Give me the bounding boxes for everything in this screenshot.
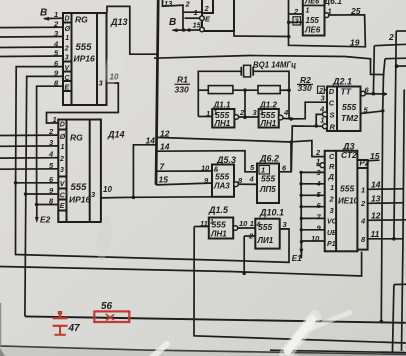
svg-text:15: 15 bbox=[193, 21, 202, 30]
svg-text:1: 1 bbox=[65, 35, 69, 42]
svg-text:ЛН1: ЛН1 bbox=[260, 119, 277, 128]
svg-text:2: 2 bbox=[248, 232, 254, 241]
svg-text:56: 56 bbox=[101, 301, 113, 312]
svg-text:47: 47 bbox=[68, 323, 81, 334]
svg-text:ЛЕ6: ЛЕ6 bbox=[304, 0, 320, 6]
svg-text:1: 1 bbox=[210, 219, 214, 226]
svg-text:R: R bbox=[330, 123, 336, 132]
svg-text:10: 10 bbox=[201, 164, 210, 173]
svg-text:2: 2 bbox=[59, 156, 64, 163]
svg-text:C: C bbox=[329, 99, 335, 108]
svg-text:330: 330 bbox=[175, 85, 189, 95]
svg-text:3: 3 bbox=[60, 167, 64, 174]
svg-text:11: 11 bbox=[200, 219, 208, 228]
svg-text:Р1: Р1 bbox=[327, 241, 336, 248]
svg-text:Е1: Е1 bbox=[292, 254, 302, 263]
svg-text:Д: Д bbox=[328, 172, 335, 181]
svg-text:&: & bbox=[257, 221, 262, 228]
svg-text:1: 1 bbox=[250, 219, 254, 228]
svg-text:RG: RG bbox=[70, 133, 83, 143]
svg-text:E: E bbox=[60, 203, 65, 210]
svg-text:ИР16: ИР16 bbox=[69, 195, 91, 205]
svg-text:1: 1 bbox=[260, 110, 264, 117]
svg-text:1: 1 bbox=[53, 115, 57, 124]
svg-text:4: 4 bbox=[53, 39, 59, 48]
svg-text:2: 2 bbox=[293, 7, 299, 16]
svg-text:555: 555 bbox=[71, 182, 88, 193]
svg-text:1: 1 bbox=[194, 8, 198, 17]
svg-text:ЛЕ6: ЛЕ6 bbox=[304, 26, 321, 35]
svg-text:ТМ2: ТМ2 bbox=[341, 113, 358, 123]
svg-text:555: 555 bbox=[261, 174, 275, 184]
svg-text:Д10.1: Д10.1 bbox=[259, 208, 284, 218]
svg-text:СТ2: СТ2 bbox=[341, 150, 357, 160]
svg-text:4: 4 bbox=[316, 179, 322, 188]
svg-text:555: 555 bbox=[215, 172, 229, 182]
svg-text:1: 1 bbox=[206, 109, 210, 118]
svg-text:10: 10 bbox=[311, 234, 320, 243]
svg-text:Е2: Е2 bbox=[40, 215, 51, 225]
svg-text:2: 2 bbox=[204, 4, 210, 13]
svg-text:19: 19 bbox=[350, 38, 360, 48]
svg-text:1: 1 bbox=[306, 8, 310, 15]
svg-text:15: 15 bbox=[370, 151, 380, 161]
svg-text:R: R bbox=[329, 162, 335, 171]
svg-text:В: В bbox=[40, 8, 47, 19]
svg-text:4: 4 bbox=[360, 217, 366, 226]
svg-text:D: D bbox=[65, 16, 70, 23]
svg-text:4: 4 bbox=[249, 175, 255, 184]
svg-text:2: 2 bbox=[48, 127, 54, 136]
svg-text:ЛИ1: ЛИ1 bbox=[257, 236, 274, 245]
svg-text:1: 1 bbox=[320, 116, 324, 125]
svg-text:2: 2 bbox=[53, 20, 59, 29]
svg-text:Д5.3: Д5.3 bbox=[216, 155, 236, 165]
svg-text:12: 12 bbox=[160, 129, 170, 139]
svg-text:13: 13 bbox=[164, 0, 173, 8]
svg-text:25: 25 bbox=[350, 6, 361, 16]
svg-text:D: D bbox=[329, 87, 335, 96]
svg-text:4: 4 bbox=[319, 104, 325, 113]
svg-text:15: 15 bbox=[159, 175, 169, 185]
svg-text:Д6.2: Д6.2 bbox=[259, 154, 279, 164]
svg-text:Д1.1: Д1.1 bbox=[213, 101, 231, 110]
svg-text:13: 13 bbox=[371, 194, 381, 204]
svg-text:14: 14 bbox=[160, 142, 170, 152]
svg-text:1: 1 bbox=[214, 110, 218, 117]
svg-text:UВ: UВ bbox=[327, 230, 337, 237]
svg-text:ТТ: ТТ bbox=[341, 87, 352, 97]
svg-text:4: 4 bbox=[48, 150, 54, 159]
svg-text:R1: R1 bbox=[177, 75, 188, 85]
svg-text:C: C bbox=[329, 152, 335, 161]
svg-text:12: 12 bbox=[371, 211, 381, 221]
svg-text:1: 1 bbox=[54, 10, 58, 19]
svg-text:VC: VC bbox=[327, 219, 338, 226]
svg-text:10: 10 bbox=[103, 185, 112, 194]
svg-text:ЛН1: ЛН1 bbox=[210, 230, 227, 239]
svg-text:2: 2 bbox=[64, 46, 69, 53]
svg-text:Д13: Д13 bbox=[110, 17, 128, 27]
svg-text:555: 555 bbox=[340, 184, 354, 194]
svg-text:Р2: Р2 bbox=[360, 159, 370, 168]
svg-text:3: 3 bbox=[65, 55, 69, 62]
svg-text:В: В bbox=[169, 17, 176, 28]
svg-text:ЛА3: ЛА3 bbox=[213, 182, 230, 191]
svg-text:S: S bbox=[330, 111, 335, 120]
svg-text:2: 2 bbox=[360, 199, 366, 208]
svg-text:1: 1 bbox=[330, 183, 334, 192]
svg-text:555: 555 bbox=[76, 42, 93, 53]
svg-text:Д14: Д14 bbox=[107, 130, 125, 140]
svg-text:E: E bbox=[65, 85, 70, 92]
svg-text:330: 330 bbox=[298, 83, 312, 93]
svg-text:1: 1 bbox=[361, 186, 365, 195]
svg-text:Д1.5: Д1.5 bbox=[208, 205, 229, 215]
svg-text:155: 155 bbox=[306, 16, 320, 25]
svg-text:ИР16: ИР16 bbox=[74, 54, 96, 64]
svg-text:2: 2 bbox=[239, 108, 245, 117]
svg-text:1: 1 bbox=[328, 7, 332, 16]
svg-text:2: 2 bbox=[388, 32, 394, 42]
svg-text:Ø: Ø bbox=[65, 26, 71, 33]
svg-text:14: 14 bbox=[146, 136, 156, 146]
svg-text:2: 2 bbox=[329, 195, 335, 204]
svg-text:ИЕ10: ИЕ10 bbox=[338, 197, 359, 206]
svg-text:Ø: Ø bbox=[60, 134, 66, 141]
svg-text:BQ1 14МГц: BQ1 14МГц bbox=[253, 61, 296, 70]
svg-text:1: 1 bbox=[316, 157, 320, 166]
svg-text:ЛН1: ЛН1 bbox=[214, 119, 231, 128]
svg-text:4: 4 bbox=[283, 108, 289, 117]
svg-text:11: 11 bbox=[371, 229, 380, 239]
svg-text:2: 2 bbox=[315, 148, 321, 157]
svg-text:D: D bbox=[60, 122, 65, 129]
svg-text:555: 555 bbox=[342, 102, 356, 112]
svg-text:10: 10 bbox=[239, 219, 248, 228]
svg-text:Д2.1: Д2.1 bbox=[332, 77, 352, 87]
svg-text:Д1.2: Д1.2 bbox=[259, 101, 277, 110]
svg-text:555: 555 bbox=[212, 220, 226, 230]
svg-text:Д6.1: Д6.1 bbox=[323, 0, 342, 6]
svg-text:14: 14 bbox=[371, 180, 381, 190]
svg-text:2: 2 bbox=[185, 0, 191, 9]
svg-text:1: 1 bbox=[61, 144, 65, 151]
svg-text:ЛП5: ЛП5 bbox=[259, 185, 276, 194]
svg-text:RG: RG bbox=[75, 15, 88, 25]
